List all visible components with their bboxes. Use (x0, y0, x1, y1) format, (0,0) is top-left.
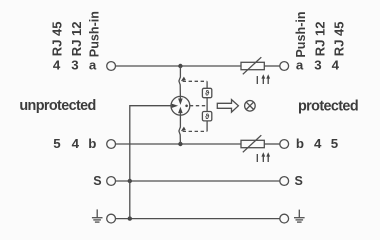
varistor row a (241, 57, 264, 74)
terminal PE right (280, 214, 289, 223)
svg-text:S: S (93, 174, 101, 188)
svg-text:Push-in: Push-in (294, 11, 308, 57)
junction node S / bus (128, 179, 132, 183)
svg-text:RJ 45: RJ 45 (331, 21, 346, 56)
wire row b left (terminal b to varistor) (116, 143, 242, 145)
junction node row a / GDT top tap (178, 64, 182, 68)
GDT top electrode wire with disconnect jog (179, 66, 181, 99)
remote indication symbol (circle with cross) (245, 101, 256, 112)
svg-text:RJ 12: RJ 12 (69, 21, 84, 56)
wire row a right (varistor to terminal) (264, 65, 280, 67)
svg-text:5: 5 (53, 136, 61, 151)
svg-text:protected: protected (298, 98, 358, 114)
disconnect actuator arrow bottom (181, 127, 186, 132)
bus wire: GDT center electrode to S and PE (130, 106, 171, 219)
svg-text:a: a (296, 58, 304, 73)
wire row PE (116, 218, 280, 220)
gas discharge tube (3-electrode arrester) (171, 96, 190, 115)
terminal S right (shield, protected side) (280, 177, 289, 186)
mechanical linkage dashed line middle (GDT center) (190, 105, 207, 107)
svg-text:4: 4 (53, 58, 61, 73)
svg-text:5: 5 (331, 136, 339, 151)
terminal a right (Push-in a, protected side) (280, 62, 289, 71)
thermal disconnect device top (202, 88, 211, 97)
SPD test class marking row b (| up-arrows) (257, 152, 270, 162)
disconnect actuator arrow top (181, 77, 186, 82)
varistor row b (241, 135, 264, 152)
terminal b left (Push-in b, unprotected side) (107, 140, 116, 149)
linkage vertical connector (206, 81, 208, 131)
svg-text:Push-in: Push-in (88, 11, 102, 57)
svg-text:unprotected: unprotected (19, 98, 95, 114)
svg-text:4: 4 (332, 58, 340, 73)
terminal b right (Push-in b, protected side) (280, 140, 289, 149)
svg-text:3: 3 (314, 58, 321, 73)
svg-text:S: S (295, 174, 303, 188)
svg-text:RJ 45: RJ 45 (50, 21, 65, 56)
SPD test class marking row a (| up-arrows) (257, 74, 270, 84)
svg-text:3: 3 (71, 58, 78, 73)
ground symbol right (294, 210, 305, 223)
terminal a left (Push-in a, unprotected side) (107, 62, 116, 71)
thermal disconnect device bottom (202, 112, 211, 121)
svg-text:b: b (88, 136, 96, 151)
ground symbol left (92, 209, 103, 222)
terminal PE left (107, 214, 116, 223)
svg-text:4: 4 (72, 136, 80, 151)
GDT bottom electrode wire with disconnect jog (179, 113, 181, 144)
wire row S (116, 180, 280, 182)
defect indication block arrow (217, 100, 238, 113)
wire row a left (terminal a to varistor) (116, 65, 242, 67)
svg-text:a: a (89, 58, 97, 73)
terminal S left (shield, unprotected side) (107, 177, 116, 186)
svg-text:RJ 12: RJ 12 (313, 21, 328, 56)
mechanical linkage dashed line top (183, 80, 208, 82)
wire row b right (varistor to terminal) (264, 143, 280, 145)
junction node row b / GDT bottom tap (178, 142, 182, 146)
junction node PE / bus (128, 216, 132, 220)
svg-text:b: b (296, 136, 304, 151)
svg-text:4: 4 (314, 136, 322, 151)
mechanical linkage dashed line bottom (183, 130, 208, 132)
